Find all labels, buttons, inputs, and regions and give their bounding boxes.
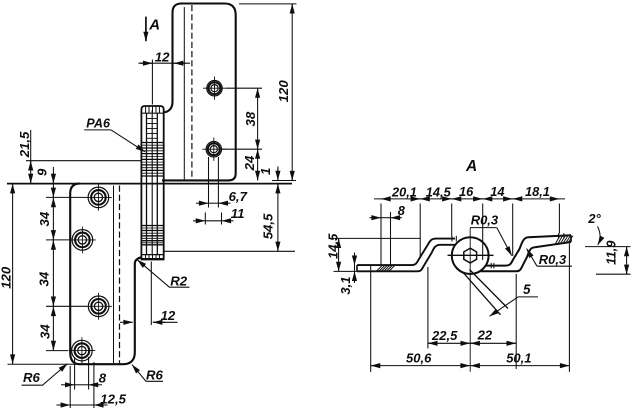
label 5 underline [518,296,538,298]
upper leaf bend line solid [183,7,185,180]
svg-text:2°: 2° [587,211,601,226]
barrel top cap line [141,112,163,114]
tangent tick marks on upper segment [451,236,453,242]
pin upper rung lines [147,119,158,139]
dim 21,5: arrows [30,161,32,170]
svg-text:8: 8 [398,203,406,218]
label 5 leader [490,297,519,316]
dim 120 right: top extension line [239,3,297,5]
R0,3 lower leader [527,249,537,267]
dim 9: dimension line [52,167,54,183]
dim 12,5: extension lines [69,366,71,408]
knuckle circle [452,237,489,274]
dim 21,5: extension line [26,160,141,162]
dim 6,7: extension lines [208,157,210,208]
R6 right leader [132,365,163,382]
profile top surface right: strip, S-bend, flange [487,235,572,265]
dim 12 bottom: dimension line [153,321,178,323]
svg-text:16: 16 [459,184,474,199]
dim 6,7: dimension line and arrows [209,202,219,204]
svg-text:22: 22 [477,328,493,343]
knuckle barrel outline [141,106,163,259]
dim 12 top: dimension line [139,62,191,64]
dim 11,9: bottom extension line [596,273,631,275]
profile top surface left: strip, S-bend, upper segment [357,239,455,266]
left strip cut hatching [377,265,395,271]
svg-text:3,1: 3,1 [338,277,353,295]
pin diagonal line 1 [463,272,501,315]
SECTION VIEW A [326,158,631,372]
svg-text:21,5: 21,5 [17,131,32,158]
svg-text:R0,3: R0,3 [471,213,499,228]
dim 14,5 left arrows [338,239,340,246]
barrel bottom cap line [141,254,163,256]
2 deg leader arc [598,227,601,246]
R0,3 upper underline [470,227,497,229]
svg-text:50,6: 50,6 [406,350,432,365]
right flange cut hatching [556,236,573,244]
dim 54,5: dimension line [277,184,279,252]
dim 14,5 left: bottom extension line [334,270,359,272]
dim 120 left arrows [12,184,14,192]
dim 11,9 arrows [626,247,628,255]
dim 11: dimension line and arrows [205,220,221,222]
R0,3 lower underline [537,265,572,267]
svg-text:34: 34 [37,324,52,339]
barrel lower washer band [141,226,163,245]
svg-text:34: 34 [37,211,52,226]
barrel bottom edge [141,258,165,260]
svg-text:A: A [465,158,477,175]
svg-text:38: 38 [243,111,258,126]
dim 24: dimension line [257,149,259,180]
dim 50,1: dimension line and arrows [470,365,569,367]
lower leaf bottom edge + left extension [8,363,80,365]
dim 38: extension line [226,87,262,89]
svg-text:12,5: 12,5 [100,392,126,407]
profile bottom surface left [357,245,456,271]
dim 120 right: dimension line [291,4,293,181]
svg-text:9: 9 [34,168,49,176]
svg-text:R2: R2 [170,273,188,288]
svg-text:54,5: 54,5 [261,213,276,239]
dim 120 right arrows [291,4,293,12]
upper leaf bend line dashed [191,5,193,180]
chain arrows at hole 1 [52,190,54,197]
dim 12,5: dimension line and arrows [70,404,94,406]
svg-text:1: 1 [258,168,273,175]
view direction arrow A [145,17,147,42]
dim 22,5: dimension line and arrows [428,342,470,344]
svg-text:34: 34 [37,271,52,286]
svg-text:12: 12 [155,50,170,65]
svg-text:11,9: 11,9 [604,240,619,265]
lower left leaf outline [70,184,141,365]
dim 3,1: dimension line [354,253,356,284]
svg-text:R6: R6 [23,370,41,385]
svg-text:24: 24 [242,155,257,171]
PA6 underline [84,129,111,131]
dim 21,5: dimension line [30,130,32,183]
upper right leaf outline [162,4,236,181]
svg-text:5: 5 [523,282,531,297]
barrel bottom knurl ticks [146,255,160,259]
dim 8 bottom: extension lines [74,357,76,390]
barrel top knurl ticks [146,106,160,113]
lower leaf hole 2 [69,227,96,254]
dim 24: extension line [222,148,262,150]
lower leaf hole 3 [85,293,112,320]
chain arrow at hole 4 [52,343,54,350]
dim 14,5 left: top extension line [332,237,420,239]
svg-text:R6: R6 [146,368,164,383]
svg-text:20,1: 20,1 [391,184,417,199]
dim 3,1 arrows [354,255,356,265]
dim 11: extension lines [204,213,206,225]
pin axis vertical line [469,228,471,372]
svg-text:R0,3: R0,3 [539,252,567,267]
hole extension lines left [46,196,86,198]
svg-text:A: A [148,17,160,34]
svg-text:14,5: 14,5 [326,233,341,259]
pin hexagon [464,248,477,263]
dim 1: vertical line and arrow [277,167,279,181]
right plate bottom edge extension stub [272,180,296,182]
dim 12 top: extension line [151,60,153,105]
R0,3 upper leader [497,228,512,256]
lower leaf hole 1 [85,184,112,211]
FRONT VIEW DIMENSIONS [0,4,297,408]
chain arrows [381,198,389,200]
dim 38 arrows [257,88,259,95]
tangent tick marks on right strip [490,263,492,268]
profile right end cap [570,235,572,242]
chain arrows at hole 2 [52,233,54,240]
lower leaf top edge + extension line [7,183,292,185]
dim 120 left: dimension line [12,184,14,364]
chain dimension line top [374,198,565,200]
dim 11,9: top extension line [585,246,631,248]
svg-text:14: 14 [490,184,504,199]
svg-text:120: 120 [276,80,291,103]
dim 38: dimension line [257,88,259,149]
tick marks on flange end [558,233,560,239]
dim 12 top: right arrow [174,62,186,64]
upper leaf hole 2 [202,138,225,161]
profile left end cap [356,265,358,271]
pin body lines [146,113,148,254]
dim 54,5 arrows [277,184,279,192]
dim 50,6: dimension line and arrows [371,365,470,367]
dim 54,5 bottom extension line [164,250,295,252]
chain arrows at hole 3 [52,299,54,306]
svg-text:18,1: 18,1 [525,184,550,199]
dim 24 arrows [257,149,259,156]
chain extension lines [380,204,382,265]
svg-text:14,5: 14,5 [426,184,452,199]
svg-text:120: 120 [0,266,13,289]
svg-text:РА6: РА6 [86,117,111,131]
lower leaf bend line dashed [119,186,121,364]
dim 8 bottom: dimension line and arrows [75,384,89,386]
barrel upper washer band [141,143,163,177]
profile bottom surface right with 2 deg taper [481,242,572,271]
svg-text:8: 8 [99,371,107,386]
svg-text:50,1: 50,1 [506,350,531,365]
svg-text:6,7: 6,7 [229,189,248,204]
pin diagonal line 2 [470,270,509,309]
bottom extension lines [370,266,372,372]
svg-text:11: 11 [231,206,245,221]
dim 14,5 left: dimension line [338,238,340,271]
lower leaf hole 4 [69,337,96,364]
pin axis line [151,110,153,255]
upper leaf hole 1 [203,77,226,100]
dim 22: dimension line and arrows [470,342,516,344]
svg-text:22,5: 22,5 [431,328,458,343]
PA6 leader [111,130,145,152]
dim 12 top: left arrow [140,62,152,64]
dim 8 section: extension line right [390,212,392,265]
svg-text:12: 12 [161,308,176,323]
dim 8 section: dimension line and arrows [381,217,391,219]
circle horizontal centerline [448,254,494,256]
chain 34 dimension line [52,184,54,351]
dim 9: arrow [52,173,54,183]
dim 12 bottom arrows [120,321,133,323]
dim 12 bottom: extension line (pin axis) [150,262,152,326]
R6 left leader [22,364,68,386]
lower leaf bend line solid [113,186,115,364]
R2 leader [137,260,189,287]
dim 11,9: dimension line [626,247,628,275]
